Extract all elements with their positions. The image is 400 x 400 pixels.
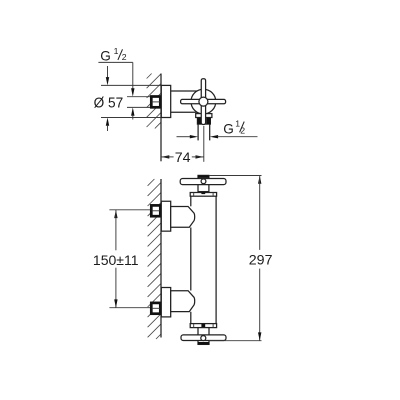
top handle stem	[201, 191, 205, 194]
top handle bar	[180, 179, 226, 185]
bottom handle screw	[201, 336, 206, 341]
297 dimension	[249, 176, 273, 341]
body top cap	[190, 193, 216, 197]
outlet centre line	[203, 126, 205, 162]
outlet thread section	[197, 118, 210, 125]
svg-text:Ø 57: Ø 57	[94, 96, 124, 112]
top handle hub	[198, 175, 209, 191]
diameter 57 dimension arrows	[106, 66, 109, 131]
cross handle horizontal bar	[181, 99, 226, 103]
74 dimension	[161, 150, 204, 166]
hex nut lower inlet	[151, 303, 160, 314]
bottom handle stem	[201, 324, 205, 328]
label G1/2 (outlet)	[223, 118, 245, 136]
top handle screw	[201, 179, 206, 184]
valve neck	[171, 90, 198, 92]
extension lines G1/2 inlet thread	[127, 96, 151, 98]
valve bottom cap	[196, 114, 212, 118]
svg-text:1: 1	[114, 46, 119, 56]
svg-text:G: G	[100, 48, 111, 63]
handle hub circle	[199, 97, 208, 106]
297 extension lines	[209, 175, 262, 177]
wall line (lower mixer)	[160, 179, 162, 338]
G1/2 top dimension arrows	[131, 62, 134, 119]
valve body circle	[191, 89, 216, 114]
body bottom cap	[190, 324, 216, 328]
label G1/2 (top)	[98, 46, 132, 63]
escutcheon upper inlet	[161, 201, 170, 231]
outlet pipe	[197, 124, 199, 140]
svg-text:297: 297	[249, 253, 273, 269]
extension lines for diameter 57	[101, 84, 161, 86]
hex nut at wall (upper valve)	[151, 97, 160, 108]
S-union upper inlet	[171, 207, 195, 228]
cross handle vertical bar	[201, 79, 205, 125]
mixer body	[191, 196, 216, 323]
svg-text:2: 2	[122, 52, 127, 62]
G1/2 outlet dimension arrows	[177, 135, 258, 138]
bottom handle bar	[181, 335, 226, 341]
hex nut upper inlet	[151, 205, 160, 216]
escutcheon lower inlet	[161, 288, 170, 317]
wall hatching (lower mixer)	[148, 179, 161, 339]
svg-text:74: 74	[175, 150, 191, 166]
bottom handle hub	[198, 328, 209, 345]
150 dimension extension lines	[109, 209, 150, 211]
svg-text:2: 2	[240, 125, 245, 135]
S-union lower inlet	[171, 291, 195, 312]
svg-text:150±11: 150±11	[93, 253, 139, 269]
150 +/-11 dimension	[93, 210, 139, 308]
escutcheon (upper valve, diameter 57)	[161, 85, 170, 117]
wall hatching (upper valve)	[147, 74, 161, 129]
wall line (upper valve)	[160, 74, 162, 162]
svg-text:G: G	[223, 121, 234, 136]
